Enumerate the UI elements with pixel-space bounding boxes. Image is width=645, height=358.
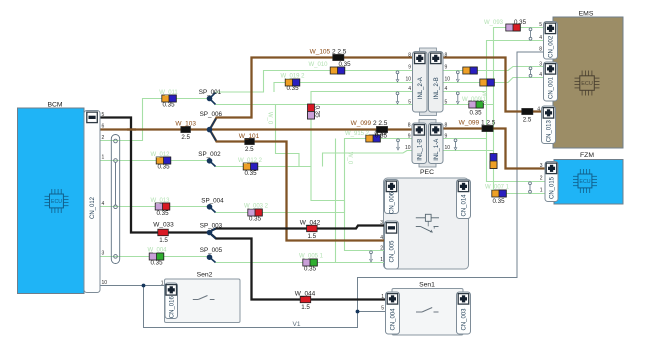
link INL_1-A pins 9-10 [454, 139, 457, 150]
svg-text:INL_1-A: INL_1-A [434, 139, 440, 161]
svg-text:CN_015: CN_015 [550, 176, 556, 199]
svg-text:2.5: 2.5 [523, 117, 532, 124]
wire-color W_915 [366, 135, 381, 142]
svg-text:8: 8 [539, 47, 542, 53]
svg-text:Sen2: Sen2 [197, 272, 213, 279]
wire V1 branch to Sen1 CN_004 pin5 [358, 311, 386, 313]
wire net BCM pin2 to SP_001 (W_011) [100, 99, 207, 141]
wire SP_005 to PEC CN_005 pin1 (W_005) [211, 259, 384, 263]
wire W_099 1 INL_1-A pin8 to FZM CN_015 pin3 [443, 129, 545, 169]
svg-text:SP_006: SP_006 [200, 111, 223, 118]
svg-text:1: 1 [102, 155, 105, 161]
connector CN_012 on BCM [84, 111, 100, 293]
inline connector pair INL_1 tabs [419, 120, 436, 168]
svg-text:0.35: 0.35 [150, 260, 163, 267]
wire SP_001 to INL_2-A pin5 [211, 100, 412, 104]
svg-text:0.35: 0.35 [157, 164, 170, 171]
wire W_033 BCM pin5 to SP_003 [100, 118, 207, 233]
wire INL_2-B pin5 (W_009) [443, 104, 494, 106]
wire-size W_033 [158, 229, 169, 236]
wire net BCM pin4 to SP_004 (W_013) [100, 206, 207, 208]
svg-text:2.5: 2.5 [181, 134, 190, 141]
connector CN_015 on FZM [545, 162, 558, 202]
svg-text:4: 4 [408, 86, 411, 92]
svg-text:0.35: 0.35 [249, 215, 262, 222]
svg-text:W_093: W_093 [484, 20, 504, 26]
svg-text:3: 3 [380, 220, 383, 226]
svg-text:W_0: W_0 [347, 152, 353, 165]
svg-text:2: 2 [102, 135, 105, 141]
svg-text:0.35: 0.35 [286, 85, 299, 92]
svg-text:CN_005: CN_005 [390, 240, 396, 263]
connector CN_004 on Sen1 [386, 292, 400, 334]
wire SP_002 to INL_2-A pin4 [211, 92, 412, 167]
svg-text:W_004: W_004 [147, 248, 167, 254]
svg-text:0.35: 0.35 [469, 110, 482, 117]
svg-text:1: 1 [380, 257, 383, 263]
wire-color W_010 [330, 67, 345, 74]
wire-color W_093 [506, 24, 521, 31]
wire-color vertical on FZM bus [490, 154, 497, 169]
svg-text:W_010: W_010 [308, 62, 328, 68]
svg-text:SP_001: SP_001 [199, 89, 222, 96]
svg-text:FZM: FZM [580, 152, 594, 159]
wire W_042 SP_003 to PEC CN_005 pin3 [211, 226, 384, 231]
wire W_101 SP_006 to PEC CN_005 pin4 [211, 132, 385, 241]
internal link BCM pins 2-3 [111, 135, 119, 264]
sensor block Sen2 [165, 279, 241, 323]
svg-text:ECU: ECU [581, 81, 593, 87]
svg-text:CN_004: CN_004 [391, 308, 397, 331]
connector CN_003 on Sen1 [457, 292, 471, 334]
svg-text:0.35: 0.35 [304, 265, 317, 272]
svg-text:1: 1 [161, 280, 164, 286]
wire-color W_009 [469, 101, 484, 108]
svg-text:3: 3 [540, 163, 543, 169]
ECU block EMS [553, 17, 623, 148]
splice SP_005 [207, 254, 216, 262]
svg-text:SP_005: SP_005 [200, 247, 223, 254]
svg-text:INL_2-B: INL_2-B [434, 77, 440, 99]
ECU block BCM [18, 108, 85, 294]
svg-text:8: 8 [408, 52, 411, 58]
svg-text:Sen1: Sen1 [419, 282, 435, 289]
svg-text:1: 1 [381, 294, 384, 300]
svg-text:CN_016: CN_016 [169, 296, 175, 319]
wire-color CN_001 pin3 wire [463, 67, 478, 74]
wire W_103 BCM pin6 to SP_006 [100, 128, 207, 130]
svg-text:10: 10 [405, 145, 411, 151]
wire INL_2-B pin10 to EMS CN_001 pin4 [443, 78, 544, 83]
link INL_2-A pins 9-10 [396, 71, 399, 82]
internal link BCM pins 1-4 [114, 159, 118, 209]
svg-text:CN_001: CN_001 [549, 76, 555, 99]
svg-text:4: 4 [445, 86, 448, 92]
wire SP_001 to INL_2-A pin9 (W_010) [211, 71, 412, 97]
component block PEC [384, 178, 469, 269]
svg-text:9: 9 [408, 133, 411, 139]
svg-text:W_011: W_011 [159, 90, 178, 96]
connector CN_002 on EMS [544, 22, 558, 60]
svg-text:W_033: W_033 [153, 221, 174, 228]
svg-text:8: 8 [445, 52, 448, 58]
wire net BCM pin3 to SP_005 (W_004) [100, 256, 207, 258]
wire riser to CN_005 pin1 [335, 139, 337, 263]
svg-text:9: 9 [445, 133, 448, 139]
wire-size W_105 [333, 55, 344, 61]
svg-text:W_0: W_0 [481, 91, 487, 104]
wire W_103 over crossing [127, 128, 136, 130]
connector CN_006 on PEC [385, 180, 399, 215]
svg-text:4: 4 [539, 35, 542, 41]
svg-text:SP_004: SP_004 [201, 197, 224, 204]
svg-text:0.35: 0.35 [492, 198, 505, 205]
wire-color on SP_002 branch [243, 163, 258, 170]
svg-text:W_105 2 2.5: W_105 2 2.5 [310, 48, 347, 55]
wire V1 BCM pin10 to Sen2 CN_016 pin1 [100, 285, 165, 287]
svg-text:5: 5 [539, 22, 542, 28]
svg-text:SP_003: SP_003 [200, 222, 223, 229]
svg-text:CN_003: CN_003 [462, 308, 468, 331]
wire-color W_012 [156, 157, 171, 164]
wire branch to INL_1-B pin10 [323, 151, 413, 167]
svg-text:3: 3 [102, 250, 105, 256]
wire SP_004 to INL_1-B pin9 (W_915) [211, 139, 412, 213]
wire W_105 SP_006 to INL_2 pin8 and EMS CN_013 pin4 [211, 58, 542, 128]
svg-text:1.5: 1.5 [307, 233, 316, 240]
svg-text:0.35: 0.35 [338, 61, 351, 68]
svg-text:5: 5 [381, 306, 384, 312]
wire branch to INL_2-A pin10 (W_019) [274, 83, 413, 93]
wire-size W_042 [307, 225, 318, 232]
svg-text:5: 5 [408, 99, 411, 105]
svg-text:W_101: W_101 [239, 133, 260, 140]
svg-text:3: 3 [539, 61, 542, 67]
link INL_1-B pins 9-10 [397, 139, 400, 150]
link INL_2-B pins 4-5 [456, 92, 459, 104]
wire-color vertical on riser [308, 104, 315, 119]
svg-text:5: 5 [445, 99, 448, 105]
link CN_015 pins 2-1 [529, 182, 532, 193]
svg-text:W_103: W_103 [175, 120, 196, 127]
svg-text:0.35: 0.35 [156, 210, 169, 217]
splice SP_001 [207, 93, 216, 105]
connector CN_016 on Sen2 [165, 283, 178, 319]
inline connector INL_2-B [429, 52, 444, 113]
svg-text:10: 10 [445, 77, 451, 83]
splice SP_004 [207, 204, 216, 213]
svg-text:W_042: W_042 [300, 219, 321, 226]
svg-text:CN_012: CN_012 [90, 196, 96, 219]
wire bus W_093 to EMS CN_002 pin5 and FZM CN_015 pin1 (W_007) [494, 28, 546, 194]
svg-text:9: 9 [445, 64, 448, 70]
svg-text:W_0: W_0 [267, 112, 273, 125]
svg-text:W_012: W_012 [150, 152, 170, 158]
wire-color CN_001 pin4 wire [480, 79, 495, 86]
svg-text:V1: V1 [293, 321, 301, 328]
junction on V1 at Sen1 [356, 310, 360, 314]
svg-text:0.35: 0.35 [375, 132, 388, 139]
svg-text:INL_2-A: INL_2-A [418, 77, 424, 99]
svg-text:8: 8 [445, 123, 448, 129]
sensor block Sen1 [392, 289, 463, 336]
svg-text:W_044: W_044 [295, 290, 316, 297]
wire INL_2-B pin4 to bus [443, 91, 487, 93]
wire bus to EMS CN_002 pin4 and FZM CN_015 pin2 [487, 41, 546, 182]
svg-text:W_013: W_013 [150, 198, 170, 204]
svg-text:10: 10 [102, 280, 108, 286]
junction on V1 at Sen2 [142, 284, 146, 288]
wire V1 from EMS CN_002 pin8 to Sen2 and BCM pin10 [144, 52, 544, 328]
svg-text:4: 4 [539, 72, 542, 78]
wire net BCM pin1 to SP_002 (W_012) [100, 160, 207, 162]
svg-text:EMS: EMS [579, 11, 594, 18]
svg-text:6: 6 [102, 124, 105, 130]
wire-size W_101 [245, 139, 255, 145]
wire W_044 SP_003 to Sen1 CN_004 pin1 [211, 235, 385, 300]
ECU chip icon in FZM [573, 169, 597, 193]
svg-text:SP_002: SP_002 [198, 151, 221, 158]
inline connector INL_1-B [412, 123, 427, 164]
wire-color W_005 [303, 259, 318, 266]
svg-text:0.35: 0.35 [244, 170, 257, 177]
wire INL_1-A pin9 to bus [443, 138, 487, 140]
svg-text:0.35: 0.35 [514, 19, 527, 26]
svg-text:W_099 1 2.5: W_099 1 2.5 [459, 119, 496, 126]
wire-size W_103 [181, 127, 191, 133]
svg-text:9: 9 [408, 64, 411, 70]
connector CN_005 on PEC [385, 221, 399, 269]
link CN_002 pins 5-4 [529, 28, 532, 40]
wire-color W_013 [155, 203, 170, 210]
ECU chip icon in EMS [575, 71, 600, 96]
wire-size W_099 2 [377, 127, 388, 133]
svg-text:W_003 2: W_003 2 [244, 203, 269, 209]
relay symbol inside PEC [416, 214, 439, 232]
svg-text:1.5: 1.5 [159, 237, 168, 244]
switch symbol inside Sen1 [416, 308, 439, 313]
inline connector INL_1-A [429, 123, 444, 164]
wire-color on SP_004 branch [248, 209, 262, 216]
wire-color W_011 [162, 95, 177, 102]
svg-text:W_012 2: W_012 2 [238, 158, 263, 164]
svg-text:4: 4 [537, 107, 540, 113]
wire branch from SP_001 net down [276, 105, 300, 167]
wire-size W_099 1 [482, 126, 493, 132]
svg-text:10: 10 [405, 77, 411, 83]
svg-text:10: 10 [445, 145, 451, 151]
wire branch to PEC CN_005 pin2 [311, 167, 385, 251]
svg-text:0.35: 0.35 [162, 102, 175, 109]
wire W_099 2 SP_006 to INL_1-B pin8 [212, 128, 412, 130]
svg-text:PEC: PEC [420, 169, 434, 176]
svg-text:1: 1 [540, 188, 543, 194]
switch symbol inside Sen2 [193, 296, 215, 300]
wire-color W_007 [492, 190, 507, 197]
svg-text:CN_002: CN_002 [549, 35, 555, 58]
svg-text:4: 4 [380, 235, 383, 241]
connector CN_014 on PEC [457, 180, 471, 219]
svg-text:8: 8 [408, 123, 411, 129]
svg-text:0.35: 0.35 [314, 105, 321, 118]
svg-text:W_007 1: W_007 1 [485, 184, 510, 190]
svg-text:2: 2 [540, 176, 543, 182]
wire-size W_044 [300, 296, 311, 303]
svg-text:1.5: 1.5 [301, 304, 310, 311]
svg-text:W_099 2 2.5: W_099 2 2.5 [351, 120, 388, 127]
svg-text:ECU: ECU [51, 199, 62, 205]
splice SP_003 [207, 228, 216, 238]
svg-text:W_019 2: W_019 2 [280, 74, 305, 80]
svg-text:2: 2 [380, 246, 383, 252]
connector CN_013 on EMS [542, 106, 556, 144]
svg-text:4: 4 [102, 201, 105, 207]
svg-text:INL_1-B: INL_1-B [417, 139, 423, 161]
wire-color W_004 [149, 253, 164, 260]
link CN_005 pins 2-1 [370, 251, 373, 262]
link CN_001 pins 3-4 [529, 67, 532, 77]
link INL_2-A pins 4-5 [396, 92, 399, 104]
wire INL_2-B pin9 to EMS CN_001 pin3 [443, 67, 544, 71]
svg-text:CN_014: CN_014 [462, 194, 468, 217]
splice SP_002 [207, 158, 216, 167]
ECU block FZM [554, 160, 623, 205]
connector CN_001 on EMS [544, 62, 558, 101]
ECU chip icon in BCM [45, 189, 69, 213]
link INL_2-B pins 9-10 [456, 71, 459, 82]
wire-size W_105 at CN_013 [522, 109, 533, 115]
wire-color W_019 [285, 79, 300, 86]
wire INL_1-A pin10 to bus [443, 150, 494, 152]
svg-text:CN_006: CN_006 [390, 191, 396, 214]
svg-text:2.5: 2.5 [245, 146, 254, 153]
inline connector pair INL_2 tabs [420, 48, 437, 116]
svg-text:W_005 1: W_005 1 [299, 254, 324, 260]
splice SP_006 [207, 119, 216, 141]
svg-text:BCM: BCM [47, 102, 62, 109]
svg-text:W_915 2: W_915 2 [345, 131, 370, 137]
inline connector INL_2-A [413, 52, 428, 113]
svg-text:5: 5 [102, 112, 105, 118]
svg-text:ECU: ECU [579, 179, 590, 185]
svg-text:CN_013: CN_013 [547, 120, 553, 143]
